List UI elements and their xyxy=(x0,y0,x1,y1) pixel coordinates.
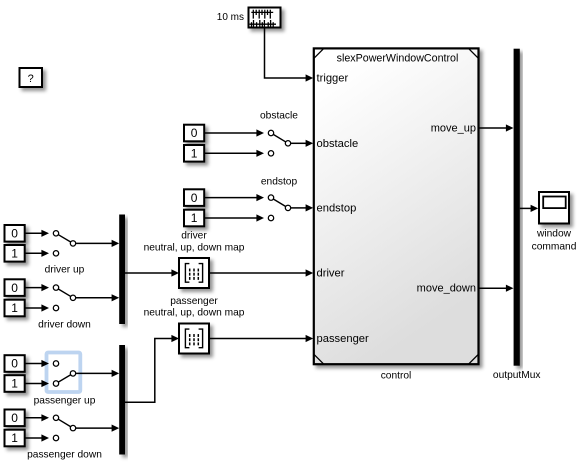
svg-text:obstacle: obstacle xyxy=(317,138,359,150)
svg-text:0: 0 xyxy=(11,281,18,295)
block constant 0 (obstacle) xyxy=(184,125,204,142)
wire constant 0 to switch (driver down) xyxy=(25,284,49,291)
manual switch (obstacle) xyxy=(268,130,290,156)
wire constant 1 to switch (passenger up) xyxy=(25,380,49,387)
block driver neutral/up/down map (index vector) xyxy=(179,258,209,288)
svg-text:trigger: trigger xyxy=(317,73,349,85)
svg-text:1: 1 xyxy=(11,247,18,261)
wire constant 0 to switch (driver up) xyxy=(25,230,49,237)
label 10 ms xyxy=(217,12,244,23)
port label passenger xyxy=(317,333,370,345)
mux outputMux xyxy=(514,49,520,366)
block constant 1 (passenger down) xyxy=(5,430,25,447)
block 10 ms function-call generator xyxy=(249,8,281,28)
block constant 0 (driver up) xyxy=(5,225,25,242)
wire clock to trigger input xyxy=(265,28,314,82)
wire endstop switch to control block xyxy=(291,204,313,211)
svg-text:driver down: driver down xyxy=(38,319,91,330)
wire constant 0 to switch (passenger down) xyxy=(25,414,49,421)
label window command xyxy=(532,228,577,252)
svg-text:1: 1 xyxy=(191,147,198,161)
label endstop xyxy=(261,177,298,188)
svg-text:outputMux: outputMux xyxy=(493,370,541,381)
manual switch (endstop) xyxy=(268,195,290,221)
svg-text:command: command xyxy=(532,241,577,252)
wire outputMux to window command xyxy=(520,205,538,212)
mux driver inputs (mux1) xyxy=(119,215,125,325)
svg-text:0: 0 xyxy=(11,411,18,425)
label outputMux xyxy=(493,370,541,381)
wire passenger up switch to mux2 xyxy=(76,370,119,377)
label obstacle xyxy=(260,111,298,122)
port label endstop xyxy=(317,202,357,214)
label driver down xyxy=(38,319,91,330)
svg-text:1: 1 xyxy=(11,431,18,445)
wire constant 1 to switch (driver up) xyxy=(25,250,49,257)
svg-text:1: 1 xyxy=(11,301,18,315)
wire move_up to outputMux xyxy=(480,124,514,131)
port label obstacle xyxy=(317,138,359,150)
block constant 1 (driver up) xyxy=(5,245,25,262)
svg-text:neutral, up, down map: neutral, up, down map xyxy=(144,242,245,253)
svg-text:window: window xyxy=(536,228,572,239)
block Model Info '?' xyxy=(20,68,43,87)
wire move_down to outputMux xyxy=(480,285,514,292)
label driver neutral, up, down map xyxy=(144,231,245,254)
svg-text:move_up: move_up xyxy=(431,123,476,135)
wire mux2 to passenger map xyxy=(125,335,179,402)
label driver up xyxy=(45,265,85,276)
wire obstacle switch to control block xyxy=(291,140,313,147)
block constant 0 (endstop) xyxy=(184,189,204,206)
manual switch (passenger down) xyxy=(53,415,75,441)
svg-text:endstop: endstop xyxy=(317,202,357,214)
svg-text:?: ? xyxy=(28,73,34,85)
label passenger neutral, up, down map xyxy=(144,296,245,319)
block constant 0 (passenger down) xyxy=(5,410,25,427)
svg-text:driver: driver xyxy=(317,268,345,280)
svg-text:neutral, up, down map: neutral, up, down map xyxy=(144,308,245,319)
svg-text:control: control xyxy=(381,370,412,381)
block window command (scope) xyxy=(539,192,569,224)
block constant 1 (obstacle) xyxy=(184,145,204,162)
label passenger up xyxy=(34,395,96,406)
block constant 1 (passenger up) xyxy=(5,375,25,392)
wire driver down switch to mux1 xyxy=(76,294,119,301)
wire constant 1 to switch (driver down) xyxy=(25,304,49,311)
svg-text:0: 0 xyxy=(191,126,198,140)
svg-text:slexPowerWindowControl: slexPowerWindowControl xyxy=(337,53,459,65)
wire passenger down switch to mux2 xyxy=(76,425,119,432)
manual switch (driver up) xyxy=(53,231,75,256)
svg-text:10 ms: 10 ms xyxy=(217,12,244,23)
block passenger neutral/up/down map (index vector) xyxy=(179,324,209,354)
wire constant 1 to switch (obstacle) xyxy=(204,150,264,157)
block constant 1 (driver down) xyxy=(5,300,25,317)
port label trigger xyxy=(317,73,349,85)
block constant 0 (passenger up) xyxy=(5,355,25,372)
block constant 0 (driver down) xyxy=(5,279,25,296)
svg-text:0: 0 xyxy=(11,227,18,241)
svg-text:driver: driver xyxy=(181,231,207,242)
port label move_up xyxy=(431,123,476,135)
wire passenger map to control block xyxy=(209,335,313,342)
svg-text:passenger: passenger xyxy=(170,296,218,307)
block constant 1 (endstop) xyxy=(184,210,204,227)
manual switch (passenger up) xyxy=(53,361,75,386)
mux passenger inputs (mux2) xyxy=(119,345,125,455)
port label move_down xyxy=(417,283,476,295)
wire constant 0 to switch (obstacle) xyxy=(204,129,264,136)
svg-text:obstacle: obstacle xyxy=(260,111,298,122)
svg-text:passenger up: passenger up xyxy=(34,395,96,406)
wire constant 0 to switch (passenger up) xyxy=(25,360,49,367)
svg-text:0: 0 xyxy=(11,357,18,371)
label control xyxy=(381,370,412,381)
svg-text:endstop: endstop xyxy=(261,177,298,188)
svg-text:0: 0 xyxy=(191,191,198,205)
port label driver xyxy=(317,268,345,280)
svg-text:passenger: passenger xyxy=(317,333,370,345)
label passenger down xyxy=(27,450,102,461)
wire driver map to control block xyxy=(209,269,313,276)
wire mux1 to driver map xyxy=(125,269,179,276)
svg-text:1: 1 xyxy=(11,377,18,391)
svg-text:driver up: driver up xyxy=(45,265,85,276)
svg-text:move_down: move_down xyxy=(417,283,476,295)
wire driver up switch to mux1 xyxy=(76,240,119,247)
svg-text:1: 1 xyxy=(191,211,198,225)
selection highlight around passenger up switch xyxy=(47,353,81,393)
wire constant 1 to switch (passenger down) xyxy=(25,434,49,441)
wire constant 0 to switch (endstop) xyxy=(204,194,264,201)
wire constant 1 to switch (endstop) xyxy=(204,214,264,221)
manual switch (driver down) xyxy=(53,285,75,311)
svg-text:passenger down: passenger down xyxy=(27,450,102,461)
block control (slexPowerWindowControl model reference) xyxy=(314,48,479,364)
